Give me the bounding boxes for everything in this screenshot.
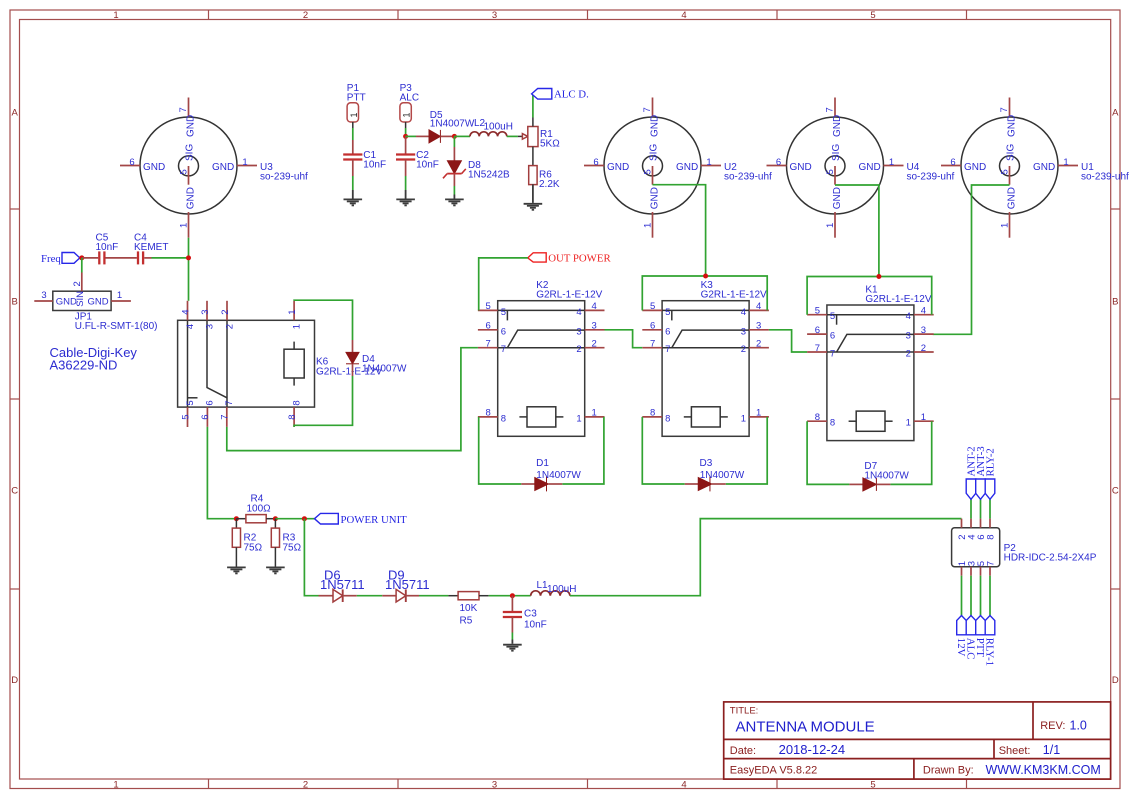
svg-text:D: D bbox=[1112, 675, 1119, 686]
svg-text:GND: GND bbox=[56, 296, 77, 307]
svg-text:6: 6 bbox=[501, 326, 506, 337]
svg-text:6: 6 bbox=[830, 331, 835, 342]
pin 2 of K6 bbox=[226, 301, 228, 321]
svg-text:GND: GND bbox=[1007, 115, 1018, 137]
diode D1 1N4007W bbox=[521, 458, 581, 491]
header P1 bbox=[347, 83, 366, 128]
wire K6 pin 1 to D4 bbox=[294, 300, 352, 340]
pin 7 of K2 bbox=[478, 347, 498, 349]
pin 7 GND top of U3 bbox=[188, 98, 190, 118]
svg-text:8: 8 bbox=[291, 400, 302, 405]
svg-text:SIG: SIG bbox=[185, 144, 196, 161]
net flag RLY-1 bbox=[984, 576, 996, 666]
capacitor C2 pin top bbox=[405, 136, 407, 154]
svg-text:4: 4 bbox=[906, 311, 911, 322]
pin 1 GND bottom of U1 bbox=[1009, 212, 1011, 238]
capacitor C1 bbox=[343, 150, 386, 171]
svg-text:5: 5 bbox=[870, 10, 875, 21]
svg-text:10nF: 10nF bbox=[363, 160, 386, 171]
svg-text:ALC: ALC bbox=[400, 93, 419, 104]
pin 6 GND left of U1 bbox=[941, 165, 961, 167]
wire K2 pin 3 to K3 pin 7 bbox=[605, 330, 643, 348]
relay K2 G2RL-1-E-12V bbox=[478, 280, 605, 436]
svg-text:4: 4 bbox=[756, 301, 761, 312]
svg-text:U.FL-R-SMT-1(80): U.FL-R-SMT-1(80) bbox=[75, 321, 158, 332]
connector U4 so-239-uhf bbox=[767, 98, 955, 238]
pin 1 GND bottom of U4 bbox=[834, 212, 836, 238]
ground bbox=[266, 567, 285, 573]
svg-text:Freq: Freq bbox=[41, 253, 61, 265]
inductor L1 100uH bbox=[531, 580, 577, 596]
net flag ALC D. bbox=[532, 89, 589, 101]
wire R1 bottom to R6 bbox=[532, 147, 534, 166]
pin 7 GND top of U1 bbox=[1009, 98, 1011, 118]
pin 1 of P2 bbox=[961, 567, 963, 576]
svg-text:2.2K: 2.2K bbox=[539, 179, 560, 190]
svg-text:8: 8 bbox=[665, 413, 670, 424]
pin 5 of K2 bbox=[478, 309, 498, 311]
svg-text:WWW.KM3KM.COM: WWW.KM3KM.COM bbox=[986, 763, 1101, 777]
svg-text:C3: C3 bbox=[524, 609, 537, 620]
pin 1 GND right of U2 bbox=[701, 165, 721, 167]
net flag ANT-2 bbox=[965, 446, 977, 518]
svg-text:1: 1 bbox=[1063, 157, 1068, 168]
svg-text:so-239-uhf: so-239-uhf bbox=[1081, 171, 1129, 182]
svg-text:Date:: Date: bbox=[730, 745, 756, 757]
wire POWER UNIT junction down to D6 bbox=[304, 519, 318, 596]
svg-text:SIG: SIG bbox=[1006, 144, 1017, 161]
resistor R3 75 Ohm bbox=[271, 519, 301, 567]
pin 6 GND left of U4 bbox=[767, 165, 787, 167]
svg-text:1/1: 1/1 bbox=[1043, 743, 1060, 757]
svg-text:ANTENNA MODULE: ANTENNA MODULE bbox=[736, 719, 875, 736]
wire D9 to R5 bbox=[419, 595, 448, 597]
svg-text:10nF: 10nF bbox=[96, 242, 119, 253]
wire U2 SIG to K3 bridge bbox=[653, 185, 706, 276]
svg-text:8: 8 bbox=[486, 408, 491, 419]
pin 1 GND right of U3 bbox=[237, 165, 257, 167]
header P3 bbox=[400, 83, 419, 128]
svg-text:100uH: 100uH bbox=[484, 122, 513, 133]
wire K6 pin 6 down to R4 line bbox=[207, 427, 236, 519]
svg-text:5: 5 bbox=[665, 307, 670, 318]
svg-text:7: 7 bbox=[224, 400, 235, 405]
svg-text:8: 8 bbox=[986, 535, 997, 540]
net flag Freq bbox=[41, 253, 80, 265]
pin 4 of P2 bbox=[970, 519, 972, 528]
ground bbox=[524, 204, 543, 210]
pin 2 of K3 bbox=[749, 347, 769, 349]
wire U4 SIG to K1 bridge bbox=[835, 185, 879, 277]
svg-text:Sheet:: Sheet: bbox=[999, 745, 1031, 757]
svg-text:3: 3 bbox=[756, 321, 761, 332]
svg-text:5: 5 bbox=[179, 169, 190, 174]
svg-text:2018-12-24: 2018-12-24 bbox=[779, 742, 846, 757]
net flag OUT POWER bbox=[528, 253, 612, 265]
pin 5 SIG center of U2 bbox=[652, 166, 654, 185]
pin 1 of K2 bbox=[585, 416, 605, 418]
svg-text:6: 6 bbox=[129, 157, 134, 168]
svg-text:7: 7 bbox=[665, 344, 670, 355]
pin 4 of K3 bbox=[749, 309, 769, 311]
svg-text:G2RL-1-E-12V: G2RL-1-E-12V bbox=[536, 290, 602, 301]
pin 7 of K3 bbox=[642, 347, 662, 349]
pin 5 of P2 bbox=[980, 567, 982, 576]
svg-text:5: 5 bbox=[815, 306, 820, 317]
svg-text:1: 1 bbox=[291, 324, 302, 329]
svg-text:1N5711: 1N5711 bbox=[320, 577, 365, 592]
svg-text:RLY-1: RLY-1 bbox=[984, 638, 996, 666]
svg-text:10K: 10K bbox=[460, 603, 478, 614]
svg-text:3: 3 bbox=[492, 10, 497, 21]
svg-text:D3: D3 bbox=[700, 458, 713, 469]
title block bbox=[724, 702, 1111, 779]
svg-text:1: 1 bbox=[706, 157, 711, 168]
svg-text:8: 8 bbox=[815, 412, 820, 423]
net flag ALC bbox=[965, 576, 977, 660]
svg-text:2: 2 bbox=[906, 349, 911, 360]
svg-text:1: 1 bbox=[756, 408, 761, 419]
svg-text:TITLE:: TITLE: bbox=[730, 706, 759, 717]
svg-text:1N4007W: 1N4007W bbox=[536, 470, 581, 481]
svg-text:2: 2 bbox=[921, 343, 926, 354]
node junction R4/R3 bbox=[273, 516, 278, 521]
svg-text:1: 1 bbox=[1000, 223, 1011, 228]
pin 8 of K3 bbox=[642, 416, 662, 418]
diode D6 1N5711 bbox=[319, 568, 365, 603]
svg-text:10nF: 10nF bbox=[524, 620, 547, 631]
capacitor C1 pin bottom bbox=[352, 160, 354, 177]
svg-text:4: 4 bbox=[180, 310, 191, 315]
wire D7 loop bbox=[807, 421, 849, 484]
svg-text:1: 1 bbox=[921, 412, 926, 423]
svg-text:5: 5 bbox=[870, 780, 875, 791]
svg-text:6: 6 bbox=[650, 321, 655, 332]
wire C4 to U3 junction bbox=[152, 257, 189, 259]
svg-text:POWER UNIT: POWER UNIT bbox=[341, 514, 408, 526]
svg-text:1: 1 bbox=[349, 112, 359, 117]
svg-text:5: 5 bbox=[650, 301, 655, 312]
svg-text:4: 4 bbox=[681, 10, 686, 21]
capacitor C2 pin bottom bbox=[405, 160, 407, 177]
svg-text:GND: GND bbox=[186, 115, 197, 137]
node junction U4/K1 bridge bbox=[876, 274, 881, 279]
svg-text:GND: GND bbox=[790, 162, 812, 173]
pin 6 GND left of U3 bbox=[120, 165, 140, 167]
pin 7 of P2 bbox=[989, 567, 991, 576]
svg-text:1: 1 bbox=[113, 780, 118, 791]
svg-text:KEMET: KEMET bbox=[134, 242, 168, 253]
relay K3 G2RL-1-E-12V bbox=[642, 280, 769, 436]
svg-text:C: C bbox=[11, 486, 18, 497]
pin 5 of K6 bbox=[187, 407, 189, 427]
svg-text:GND: GND bbox=[1007, 187, 1018, 209]
svg-text:GND: GND bbox=[832, 187, 843, 209]
pin 1 GND right of U1 bbox=[1058, 165, 1078, 167]
wire D4 to K6 pin 8 bbox=[294, 376, 352, 427]
pin 6 of P2 bbox=[980, 519, 982, 528]
svg-text:5: 5 bbox=[486, 301, 491, 312]
svg-text:2: 2 bbox=[592, 339, 597, 350]
svg-text:SIG: SIG bbox=[831, 144, 842, 161]
svg-text:6: 6 bbox=[486, 321, 491, 332]
svg-text:7: 7 bbox=[178, 107, 189, 112]
svg-text:so-239-uhf: so-239-uhf bbox=[907, 171, 955, 182]
svg-text:GND: GND bbox=[650, 187, 661, 209]
svg-text:6: 6 bbox=[205, 400, 216, 405]
pin 6 of K1 bbox=[807, 333, 827, 335]
svg-text:6: 6 bbox=[200, 415, 211, 420]
wire D6 to D9 bbox=[357, 595, 383, 597]
wire U3 SIG down to Freq junction bbox=[188, 238, 190, 301]
ground bbox=[445, 199, 464, 205]
pin 1 of P1 bbox=[352, 122, 354, 128]
svg-text:100uH: 100uH bbox=[547, 584, 576, 595]
connector U2 so-239-uhf bbox=[584, 98, 772, 238]
pin 1 of K1 bbox=[914, 420, 934, 422]
pin 8 of K1 bbox=[807, 420, 827, 422]
pin 7 of K6 bbox=[226, 407, 228, 427]
pin 6 of K2 bbox=[478, 329, 498, 331]
svg-text:4: 4 bbox=[185, 324, 196, 329]
svg-text:4: 4 bbox=[681, 780, 686, 791]
svg-text:1N5711: 1N5711 bbox=[385, 577, 430, 592]
svg-text:C: C bbox=[1112, 486, 1119, 497]
svg-text:5: 5 bbox=[501, 307, 506, 318]
svg-text:3: 3 bbox=[741, 326, 746, 337]
svg-text:1: 1 bbox=[179, 223, 190, 228]
wire K6 pin 7 to K2 pin 7 bbox=[227, 348, 478, 451]
pin 8 of K2 bbox=[478, 416, 498, 418]
pin 1 GND bottom of U3 bbox=[188, 212, 190, 238]
wire C1 to ground bbox=[352, 176, 354, 190]
capacitor C1 pin top bbox=[352, 140, 354, 155]
wire OUT POWER to K2 pin 5 bbox=[479, 258, 528, 311]
svg-text:1: 1 bbox=[576, 413, 581, 424]
resistor R6 2.2K bbox=[529, 166, 560, 190]
wire K1 pin5-pin4 bridge bbox=[807, 277, 932, 315]
svg-text:3: 3 bbox=[576, 326, 581, 337]
svg-text:5: 5 bbox=[825, 169, 836, 174]
svg-text:A36229-ND: A36229-ND bbox=[50, 358, 118, 373]
svg-text:75Ω: 75Ω bbox=[244, 543, 263, 554]
svg-text:8: 8 bbox=[830, 418, 835, 429]
svg-text:7: 7 bbox=[825, 107, 836, 112]
svg-text:4: 4 bbox=[592, 301, 597, 312]
svg-text:RLY-2: RLY-2 bbox=[984, 448, 996, 476]
svg-text:GND: GND bbox=[1033, 162, 1055, 173]
pin 7 of K1 bbox=[807, 351, 827, 353]
svg-text:8: 8 bbox=[501, 413, 506, 424]
svg-text:REV:: REV: bbox=[1040, 720, 1065, 732]
svg-text:GND: GND bbox=[143, 162, 165, 173]
svg-text:1: 1 bbox=[113, 10, 118, 21]
pin 5 SIG center of U4 bbox=[834, 166, 836, 185]
pin 5 SIG center of U1 bbox=[1009, 166, 1011, 185]
svg-text:1: 1 bbox=[825, 223, 836, 228]
svg-text:3: 3 bbox=[200, 310, 211, 315]
svg-text:7: 7 bbox=[815, 343, 820, 354]
svg-text:EasyEDA V5.8.22: EasyEDA V5.8.22 bbox=[730, 765, 817, 777]
node junction D5/L2/D8 bbox=[452, 134, 457, 139]
svg-text:GND: GND bbox=[88, 296, 109, 307]
wire C3 to ground bbox=[511, 633, 513, 640]
node junction POWER UNIT bbox=[302, 516, 307, 521]
resistor R5 10K bbox=[448, 592, 488, 627]
pin 2 of K1 bbox=[914, 351, 934, 353]
wire R5 to C3 junction bbox=[489, 595, 531, 597]
svg-text:1: 1 bbox=[117, 290, 122, 301]
node junction P3/C2/D5 bbox=[403, 134, 408, 139]
svg-text:1N4007W: 1N4007W bbox=[430, 119, 475, 130]
diode D5 1N4007W bbox=[406, 110, 475, 143]
svg-text:5KΩ: 5KΩ bbox=[540, 138, 560, 149]
relay K1 G2RL-1-E-12V bbox=[807, 285, 934, 441]
svg-text:7: 7 bbox=[220, 415, 231, 420]
pin 2 of P2 bbox=[961, 519, 963, 528]
svg-text:5: 5 bbox=[643, 169, 654, 174]
wire D3 loop bbox=[642, 417, 684, 484]
svg-text:3: 3 bbox=[204, 324, 215, 329]
svg-text:1: 1 bbox=[741, 413, 746, 424]
svg-text:B: B bbox=[12, 297, 18, 308]
svg-text:6: 6 bbox=[815, 325, 820, 336]
svg-text:4: 4 bbox=[741, 307, 746, 318]
svg-text:1: 1 bbox=[643, 223, 654, 228]
pin 6 GND left of U2 bbox=[584, 165, 604, 167]
diode D7 1N4007W bbox=[849, 461, 909, 491]
svg-text:A: A bbox=[1112, 108, 1119, 119]
wire L1 to P2 pin 2 bbox=[570, 519, 962, 596]
svg-text:4: 4 bbox=[576, 307, 581, 318]
pin 8 of K6 bbox=[293, 407, 295, 427]
wire P3 to junction bbox=[405, 128, 407, 136]
net flag POWER UNIT bbox=[315, 513, 408, 526]
capacitor C4 KEMET bbox=[106, 233, 169, 265]
svg-text:2: 2 bbox=[220, 310, 231, 315]
svg-text:2: 2 bbox=[72, 281, 83, 286]
ground bbox=[227, 567, 246, 573]
wire C2 to ground bbox=[405, 176, 407, 190]
svg-text:3: 3 bbox=[921, 325, 926, 336]
zener diode D8 1N5242B bbox=[443, 136, 510, 186]
pin 1 of P3 bbox=[405, 122, 407, 128]
svg-text:GND: GND bbox=[607, 162, 629, 173]
svg-text:3: 3 bbox=[592, 321, 597, 332]
connector U1 so-239-uhf bbox=[941, 98, 1129, 238]
svg-text:6: 6 bbox=[776, 157, 781, 168]
svg-text:7: 7 bbox=[486, 339, 491, 350]
diode D9 1N5711 bbox=[382, 568, 429, 603]
svg-text:R5: R5 bbox=[460, 616, 473, 627]
svg-text:2: 2 bbox=[303, 780, 308, 791]
svg-text:GND: GND bbox=[964, 162, 986, 173]
pin 3 of K3 bbox=[749, 329, 769, 331]
svg-text:A: A bbox=[12, 108, 19, 119]
connector U3 so-239-uhf bbox=[120, 98, 308, 238]
pin 3 of K2 bbox=[585, 329, 605, 331]
pin 1 GND right of U4 bbox=[884, 165, 904, 167]
svg-text:ALC D.: ALC D. bbox=[554, 89, 589, 101]
svg-text:1: 1 bbox=[592, 408, 597, 419]
svg-text:1N4007W: 1N4007W bbox=[362, 364, 407, 375]
svg-text:G2RL-1-E-12V: G2RL-1-E-12V bbox=[701, 290, 767, 301]
svg-text:2: 2 bbox=[303, 10, 308, 21]
svg-text:8: 8 bbox=[287, 415, 298, 420]
pin 1 GND bottom of U2 bbox=[652, 212, 654, 238]
svg-text:7: 7 bbox=[642, 107, 653, 112]
relay K6 G2RL-1-E-12V bbox=[178, 301, 383, 427]
svg-text:3: 3 bbox=[41, 290, 46, 301]
svg-text:10nF: 10nF bbox=[416, 160, 439, 171]
pin 5 of K3 bbox=[642, 309, 662, 311]
wire D1 loop bbox=[479, 417, 522, 484]
capacitor C2 bbox=[396, 150, 439, 171]
resistor R2 75 Ohm bbox=[232, 519, 262, 567]
pin 6 of K6 bbox=[206, 407, 208, 427]
svg-text:5: 5 bbox=[180, 415, 191, 420]
svg-text:1: 1 bbox=[287, 310, 298, 315]
net flag 12V bbox=[955, 576, 967, 657]
pin 3 of K1 bbox=[914, 333, 934, 335]
svg-text:3: 3 bbox=[906, 331, 911, 342]
svg-text:1: 1 bbox=[242, 157, 247, 168]
wire R1 top to ALC D. flag bbox=[532, 118, 534, 127]
svg-text:SIG: SIG bbox=[649, 144, 660, 161]
svg-text:GND: GND bbox=[676, 162, 698, 173]
svg-text:1N4007W: 1N4007W bbox=[864, 470, 909, 481]
diode D3 1N4007W bbox=[685, 458, 745, 491]
wire D8 to ground bbox=[453, 186, 455, 195]
svg-text:4: 4 bbox=[921, 306, 926, 317]
ground bbox=[396, 199, 415, 205]
net flag ANT-3 bbox=[975, 446, 987, 518]
capacitor C3 10nF bbox=[503, 596, 547, 633]
svg-text:7: 7 bbox=[501, 344, 506, 355]
svg-text:7: 7 bbox=[650, 339, 655, 350]
svg-text:6: 6 bbox=[950, 157, 955, 168]
svg-text:GND: GND bbox=[858, 162, 880, 173]
svg-text:D1: D1 bbox=[536, 458, 549, 469]
wire P1 to C1 bbox=[352, 128, 354, 140]
pin 6 of K3 bbox=[642, 329, 662, 331]
pin 8 of P2 bbox=[989, 519, 991, 528]
pin 3 of K6 bbox=[206, 301, 208, 321]
ground bbox=[344, 199, 363, 205]
pin 1 of K6 bbox=[293, 301, 295, 321]
svg-text:GND: GND bbox=[650, 115, 661, 137]
svg-text:2: 2 bbox=[576, 344, 581, 355]
svg-text:75Ω: 75Ω bbox=[283, 543, 302, 554]
pin 7 GND top of U4 bbox=[834, 98, 836, 118]
svg-text:2: 2 bbox=[741, 344, 746, 355]
pin 1 of JP1 bbox=[111, 300, 131, 302]
resistor R4 100 Ohm bbox=[236, 494, 275, 523]
node junction U2/K3 bridge bbox=[703, 274, 708, 279]
node junction Freq/JP1/C5 bbox=[79, 255, 84, 260]
pin 1 of K3 bbox=[749, 416, 769, 418]
svg-text:1.0: 1.0 bbox=[1070, 719, 1087, 733]
connector JP1 U.FL-R-SMT-1(80) bbox=[34, 273, 157, 333]
ground bbox=[503, 645, 522, 651]
connector P2 HDR-IDC-2.54-2X4P bbox=[952, 519, 1097, 576]
svg-text:5: 5 bbox=[1000, 169, 1011, 174]
svg-text:1: 1 bbox=[889, 157, 894, 168]
svg-text:GND: GND bbox=[186, 187, 197, 209]
wire K3 pin5-pin4 bridge bbox=[642, 276, 767, 310]
svg-text:100Ω: 100Ω bbox=[247, 504, 272, 515]
svg-text:SIN: SIN bbox=[75, 291, 86, 307]
